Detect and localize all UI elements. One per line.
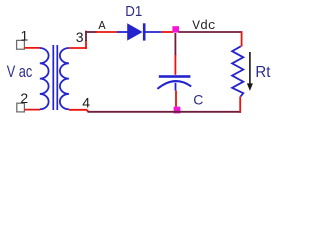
wire pin4 stub (69, 109, 88, 111)
junction dot Vdc (172, 26, 179, 32)
svg-text:2: 2 (20, 90, 28, 106)
capacitor C curved plate (157, 81, 191, 89)
pin 2 terminal square (17, 103, 25, 112)
svg-text:3: 3 (76, 29, 84, 45)
svg-text:A: A (98, 19, 106, 33)
wire pin1 stub (24, 47, 40, 49)
wire node A maroon part (85, 31, 97, 33)
current arrow line (249, 52, 251, 85)
svg-text:1: 1 (21, 28, 29, 44)
svg-text:V ac: V ac (7, 63, 33, 81)
wire cap bottom lead (175, 91, 177, 111)
diode D1 cathode bar (143, 23, 146, 40)
wire cap top lead maroon (174, 33, 176, 56)
wire cap top lead red (174, 55, 176, 75)
wire pin4 jog (87, 110, 89, 112)
diode D1 anode lead (117, 31, 128, 33)
capacitor C bottom stub (175, 83, 177, 91)
transformer T1 secondary winding (60, 48, 69, 109)
wire Vdc rail maroon (179, 31, 243, 33)
wire jog vertical maroon upper (85, 31, 87, 41)
svg-text:Vdc: Vdc (192, 18, 215, 33)
wire right top vertical (241, 31, 243, 46)
wire node A red part (96, 31, 118, 33)
pin 1 terminal square (17, 40, 25, 49)
wire bottom rail maroon (88, 111, 241, 113)
svg-text:D1: D1 (125, 4, 142, 20)
wire jog vertical red lower (85, 40, 87, 49)
wire right bottom vertical (239, 96, 241, 113)
svg-text:Rt: Rt (255, 64, 271, 81)
junction dot bottom (174, 107, 181, 114)
capacitor C top plate (159, 75, 191, 78)
current arrow head (247, 83, 253, 91)
diode D1 triangle (127, 23, 142, 40)
wire pin2 stub (24, 109, 40, 111)
resistor Rt zigzag (232, 46, 243, 96)
diode D1 cathode lead (146, 31, 162, 33)
svg-text:4: 4 (82, 95, 90, 111)
transformer core line right (56, 45, 58, 110)
wire diode to Vdc node (162, 31, 173, 33)
transformer T1 primary winding (40, 48, 49, 109)
transformer core line left (52, 45, 54, 110)
wire pin3 stub (69, 47, 87, 49)
svg-text:C: C (193, 92, 203, 108)
